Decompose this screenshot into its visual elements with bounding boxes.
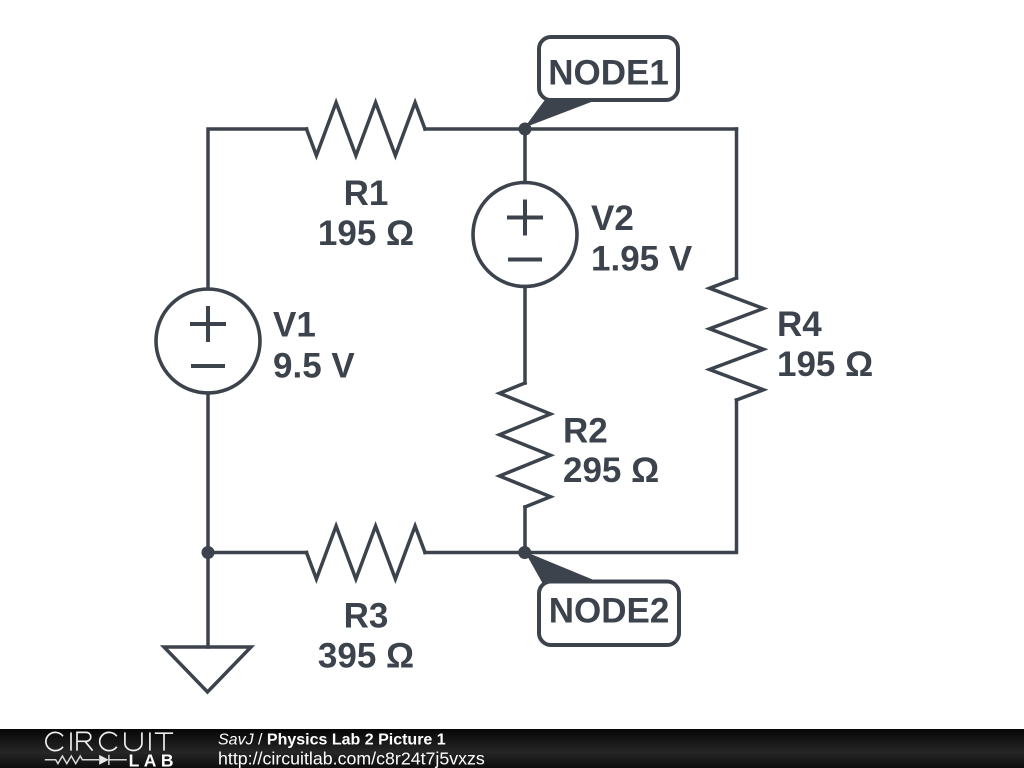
voltage source V1 circle <box>156 289 260 393</box>
svg-text:NODE2: NODE2 <box>549 592 670 631</box>
V1 minus sign <box>191 364 225 368</box>
svg-text:R1: R1 <box>344 174 389 213</box>
resistor R3 <box>307 526 426 579</box>
node junction dot bottom-left <box>202 546 215 559</box>
voltage source V2 circle <box>473 183 577 287</box>
wire: NODE1 to V2 top <box>523 129 527 183</box>
svg-text:http://circuitlab.com/c8r24t7j: http://circuitlab.com/c8r24t7j5vxzs <box>218 749 485 768</box>
wire: R1 to NODE1 to top-right corner <box>425 127 737 131</box>
svg-text:9.5 V: 9.5 V <box>273 347 355 386</box>
node B junction dot NODE2 <box>518 546 531 559</box>
wire: V1 bottom to ground node <box>206 393 210 553</box>
wire: R2 to NODE2 <box>523 507 527 553</box>
svg-text:395 Ω: 395 Ω <box>318 637 414 676</box>
ground symbol <box>164 647 251 692</box>
CircuitLab logo mini-circuit <box>45 755 127 765</box>
CircuitLab logo diode triangle <box>99 755 109 765</box>
wire: V2 bottom to R2 <box>523 287 527 384</box>
svg-text:V2: V2 <box>591 199 634 238</box>
NODE2 label box <box>539 582 679 646</box>
NODE1 flag pointer <box>525 99 600 128</box>
svg-text:1.95 V: 1.95 V <box>591 240 693 279</box>
svg-text:295 Ω: 295 Ω <box>563 451 659 490</box>
svg-text:R4: R4 <box>777 305 822 344</box>
svg-text:V1: V1 <box>273 306 316 345</box>
svg-text:R2: R2 <box>563 412 608 451</box>
resistor R1 <box>307 103 426 156</box>
svg-text:SavJ / Physics Lab 2 Picture 1: SavJ / Physics Lab 2 Picture 1 <box>218 732 446 749</box>
svg-text:195 Ω: 195 Ω <box>777 345 873 384</box>
NODE1 label box <box>539 37 678 100</box>
V2 minus sign <box>508 258 542 262</box>
resistor R4 <box>710 278 764 400</box>
wire: right rail lower and bottom rail right <box>425 400 737 553</box>
NODE2 flag pointer <box>525 552 601 585</box>
CircuitLab logo CIRCUIT wordmark <box>46 732 173 750</box>
V1 plus sign <box>190 306 226 342</box>
svg-text:195 Ω: 195 Ω <box>318 214 414 253</box>
V2 plus sign <box>507 200 543 236</box>
wire: ground stem <box>206 553 210 648</box>
svg-text:R3: R3 <box>344 597 389 636</box>
wire: right rail upper <box>735 129 739 278</box>
wire: left rail from V1 top up and across to R1 <box>208 129 307 289</box>
resistor R2 <box>500 383 551 507</box>
footer bar <box>0 729 1024 768</box>
wire: bottom rail left <box>208 551 307 555</box>
svg-text:NODE1: NODE1 <box>548 54 669 93</box>
svg-text:LAB: LAB <box>129 750 178 768</box>
node A junction dot NODE1 <box>519 123 532 136</box>
